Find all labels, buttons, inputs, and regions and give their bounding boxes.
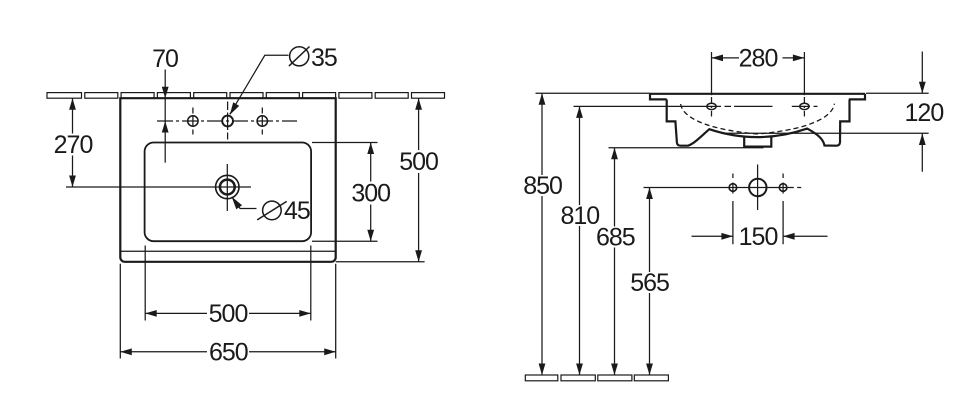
dimension 650 extension lines bbox=[120, 264, 335, 359]
dimension 120 line bbox=[921, 52, 923, 172]
svg-text:810: 810 bbox=[560, 202, 599, 230]
dimension 500 bottom extension lines bbox=[145, 246, 311, 321]
faucet hole right (fixing) bbox=[257, 116, 267, 126]
drain inner circle 45mm bbox=[220, 180, 235, 195]
extension line 120 bottom bbox=[723, 132, 929, 134]
dimension 810 line bbox=[579, 106, 581, 375]
dimension 685 line bbox=[614, 148, 616, 375]
svg-text:150: 150 bbox=[739, 223, 778, 251]
svg-text:70: 70 bbox=[152, 45, 178, 73]
svg-text:45: 45 bbox=[284, 197, 310, 225]
trap big circle vertical line bbox=[757, 165, 759, 211]
basin front edge line bbox=[120, 250, 335, 252]
extension line 120 top bbox=[866, 92, 929, 94]
leader line for diameter 45 bbox=[232, 197, 257, 209]
dimension 300 extension lines bbox=[312, 143, 378, 242]
faucet hole centre 35mm bbox=[222, 116, 233, 127]
basin inner bowl rounded rectangle bbox=[145, 143, 312, 242]
drain cross vertical bbox=[226, 164, 228, 211]
extension line 850 top bbox=[536, 92, 651, 94]
dimension 500 right line bbox=[336, 261, 425, 263]
overflow hole right bbox=[800, 103, 809, 109]
svg-text:850: 850 bbox=[523, 172, 562, 200]
dimension 280 line bbox=[712, 57, 805, 59]
extension line 565 / trap centre line bbox=[644, 187, 802, 189]
dimension 70 line bbox=[164, 70, 166, 163]
extension line 810 bbox=[574, 105, 667, 107]
svg-text:35: 35 bbox=[311, 44, 337, 72]
dimension 850 line bbox=[541, 93, 543, 375]
basin body profile bbox=[667, 99, 850, 145]
basin top plate bbox=[650, 93, 865, 95]
dimension 500 bottom line bbox=[145, 312, 311, 314]
svg-text:280: 280 bbox=[739, 45, 778, 73]
faucet hole left (fixing) bbox=[188, 116, 198, 126]
dimension 650 line bbox=[120, 351, 335, 353]
svg-text:685: 685 bbox=[596, 224, 635, 252]
wall tile hatching (top view) bbox=[47, 93, 445, 99]
drain outer circle bbox=[216, 175, 239, 198]
floor tile hatching bbox=[525, 375, 668, 381]
trap small hole left bbox=[729, 184, 737, 192]
drain cross horizontal / 270 extension line bbox=[66, 186, 251, 188]
trap small hole right bbox=[779, 184, 787, 192]
dimension 565 line bbox=[649, 188, 651, 376]
svg-text:565: 565 bbox=[630, 269, 669, 297]
basin centre mounting tab bbox=[744, 137, 771, 147]
leader line for diameter 35 bbox=[230, 55, 289, 114]
diameter symbol 45 bbox=[263, 201, 282, 220]
dimension 270 line bbox=[72, 98, 74, 187]
trap big circle bbox=[749, 179, 766, 196]
trap small hole centre dashes bbox=[733, 174, 783, 194]
dimension 150 bbox=[692, 235, 828, 237]
dashed inner bowl curve bbox=[681, 104, 835, 134]
svg-text:500: 500 bbox=[209, 300, 248, 328]
150 extension lines bbox=[733, 201, 783, 244]
svg-text:120: 120 bbox=[905, 99, 944, 127]
dimension 300 line bbox=[370, 143, 372, 242]
svg-text:270: 270 bbox=[54, 131, 93, 159]
extension line 685 bbox=[609, 147, 764, 149]
diameter symbol 35 bbox=[290, 47, 309, 66]
centre line through overflow holes bbox=[667, 105, 818, 107]
svg-text:500: 500 bbox=[399, 148, 438, 176]
centre line through faucet holes bbox=[157, 120, 297, 122]
svg-text:650: 650 bbox=[209, 338, 248, 366]
svg-text:300: 300 bbox=[351, 180, 390, 208]
vertical centre dashes through faucet holes bbox=[192, 108, 194, 135]
overflow hole left bbox=[707, 103, 716, 109]
280 extension line right bbox=[803, 52, 805, 95]
basin outer rectangle (top view) bbox=[120, 98, 335, 262]
280 extension line left bbox=[711, 52, 713, 95]
